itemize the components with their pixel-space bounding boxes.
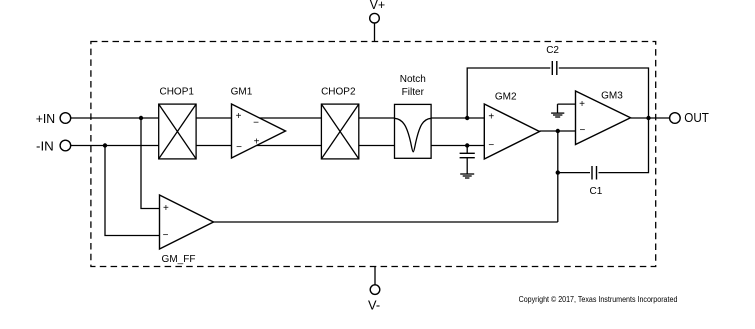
wire GM1 to CHOP2 (top): [260, 117, 322, 119]
chopper CHOP2: [321, 86, 359, 159]
junction at C1 tee: [556, 170, 560, 174]
power terminal V-: [368, 285, 380, 312]
wire notch filter to GM2 + (top): [431, 117, 484, 119]
wire feedforward + (to GM_FF plus input): [141, 118, 160, 209]
input terminal -IN: [36, 138, 71, 153]
junction at GM2 + input node: [465, 116, 469, 120]
wire CHOP1 to GM1 (top): [196, 117, 231, 119]
svg-text:−: −: [253, 117, 259, 128]
svg-text:Copyright © 2017, Texas Instru: Copyright © 2017, Texas Instruments Inco…: [519, 295, 678, 304]
svg-text:+IN: +IN: [36, 111, 55, 126]
svg-text:V-: V-: [368, 297, 380, 312]
amplifier GM_FF: [160, 195, 214, 265]
svg-text:OUT: OUT: [684, 110, 709, 125]
amplifier GM1: [231, 86, 286, 158]
wire -IN to CHOP1: [71, 145, 159, 147]
svg-text:Notch: Notch: [400, 74, 426, 85]
svg-text:GM3: GM3: [601, 90, 623, 101]
svg-text:V+: V+: [370, 0, 385, 12]
wire GM3 + input: [558, 103, 576, 105]
wire GM1 to CHOP2 (bottom): [257, 145, 322, 147]
output terminal OUT: [670, 110, 709, 125]
notch filter: [395, 74, 432, 158]
device boundary (dashed): [91, 42, 656, 267]
wire CHOP2 to notch filter (top): [359, 117, 395, 119]
svg-text:+: +: [236, 111, 242, 122]
ground (GM3 + input): [551, 104, 564, 117]
svg-text:C1: C1: [590, 186, 603, 197]
wire V+ stub: [374, 23, 376, 42]
input terminal +IN: [36, 111, 71, 126]
junction on OUT line: [646, 116, 650, 120]
capacitor C2: [467, 45, 648, 118]
svg-text:C2: C2: [546, 45, 559, 56]
svg-text:−: −: [236, 142, 242, 153]
svg-text:+: +: [488, 111, 494, 122]
ground (below shunt capacitor): [460, 174, 474, 178]
svg-text:−: −: [488, 140, 494, 151]
svg-text:Filter: Filter: [402, 87, 425, 98]
wire feedback node vertical (GM2 out down to GM_FF out): [557, 131, 559, 222]
svg-text:GM2: GM2: [495, 91, 517, 102]
svg-text:-IN: -IN: [36, 138, 54, 153]
wire +IN to CHOP1: [71, 117, 159, 119]
svg-text:−: −: [579, 125, 585, 136]
svg-text:CHOP1: CHOP1: [159, 86, 194, 97]
svg-text:+: +: [163, 203, 169, 214]
chopper CHOP1: [159, 86, 196, 159]
svg-text:−: −: [163, 230, 169, 241]
shunt capacitor to ground at GM2 - input: [460, 146, 475, 174]
power terminal V+: [370, 0, 385, 23]
wire CHOP1 to GM1 (bottom): [196, 145, 231, 147]
svg-text:CHOP2: CHOP2: [321, 86, 356, 97]
wire GM_FF output: [214, 221, 558, 223]
amplifier GM2: [484, 91, 539, 159]
svg-text:+: +: [579, 99, 585, 110]
wire GM3 output to OUT: [631, 117, 670, 119]
junction on -IN line: [103, 143, 107, 147]
wire notch filter to GM2 - (bottom): [431, 145, 484, 147]
amplifier GM3: [576, 90, 631, 144]
wire feedforward - (to GM_FF minus input): [105, 146, 160, 236]
wire V- stub: [374, 267, 376, 285]
wire CHOP2 to notch filter (bottom): [359, 145, 395, 147]
junction on +IN line: [139, 116, 143, 120]
junction at GM2 output node: [556, 129, 560, 133]
capacitor C1: [558, 118, 649, 197]
svg-text:GM_FF: GM_FF: [162, 254, 196, 265]
svg-text:GM1: GM1: [231, 86, 253, 97]
wire GM2 output to GM3 - input: [540, 130, 576, 132]
junction at GM2 - input node: [465, 143, 469, 147]
